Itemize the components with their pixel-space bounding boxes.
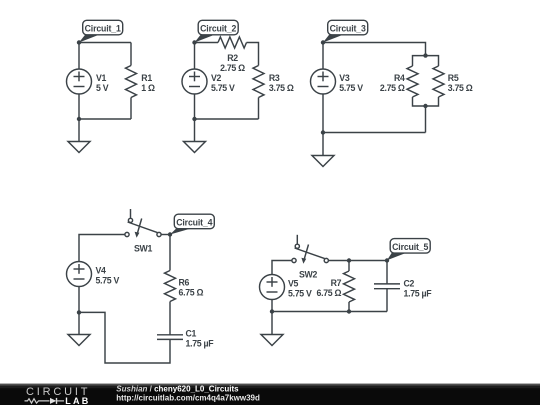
wire: R7 bottom lead bbox=[348, 302, 350, 312]
logo diode bbox=[50, 398, 64, 404]
wire: C2 top lead bbox=[386, 261, 388, 284]
svg-text:C1: C1 bbox=[186, 329, 197, 339]
svg-text:R1: R1 bbox=[141, 73, 152, 83]
footer bar bbox=[0, 384, 540, 405]
svg-text:V3: V3 bbox=[339, 73, 350, 83]
node: parallel bottom junction bbox=[423, 104, 427, 108]
wire: V3 bottom lead bbox=[322, 94, 324, 133]
svg-text:SW2: SW2 bbox=[299, 270, 317, 280]
wire: Circuit_1 ground stem bbox=[78, 119, 80, 142]
svg-text:5 V: 5 V bbox=[96, 83, 109, 93]
wire: Circuit_1 top rail bbox=[79, 42, 131, 44]
svg-text:1.75 µF: 1.75 µF bbox=[186, 339, 215, 349]
ground (Circuit_4) bbox=[68, 335, 90, 346]
wire: Circuit_1 bottom rail bbox=[79, 118, 131, 120]
ground (Circuit_2) bbox=[184, 142, 206, 153]
svg-text:1.75 µF: 1.75 µF bbox=[404, 288, 433, 298]
wire: Circuit_5 bottom rail bbox=[272, 311, 387, 313]
wire: SW2 to R7 node bbox=[329, 260, 388, 262]
wire: parallel top bar bbox=[413, 56, 439, 66]
label Circuit_4 bbox=[170, 214, 214, 234]
svg-text:Circuit_1: Circuit_1 bbox=[85, 24, 121, 34]
svg-text:R5: R5 bbox=[448, 73, 459, 83]
voltage source V4 bbox=[67, 262, 92, 287]
label Circuit_5 bbox=[387, 239, 430, 261]
svg-text:http://circuitlab.com/cm4q4a7k: http://circuitlab.com/cm4q4a7kww39d bbox=[116, 394, 260, 403]
ground (Circuit_5) bbox=[261, 335, 283, 346]
wire: Circuit_2 bottom rail bbox=[195, 118, 259, 120]
wire: Circuit_3 top rail bbox=[323, 43, 426, 56]
logo resistor squiggle bbox=[25, 399, 50, 403]
voltage source V1 bbox=[67, 69, 92, 94]
node: Circuit_1 bottom junction bbox=[77, 117, 81, 121]
voltage source V5 bbox=[260, 275, 285, 300]
wire: Circuit_2 top rail right bbox=[247, 43, 259, 66]
svg-text:6.75 Ω: 6.75 Ω bbox=[317, 288, 342, 298]
svg-text:2.75 Ω: 2.75 Ω bbox=[220, 63, 245, 73]
capacitor C2 bbox=[374, 284, 400, 289]
node: Circuit_1 top node bbox=[77, 40, 81, 44]
svg-text:V1: V1 bbox=[96, 73, 107, 83]
resistor R7 bbox=[344, 271, 355, 302]
resistor R4 bbox=[407, 66, 418, 97]
svg-text:3.75 Ω: 3.75 Ω bbox=[448, 83, 473, 93]
wire: V4 top lead bbox=[79, 235, 125, 262]
resistor R3 bbox=[253, 66, 264, 98]
svg-text:R6: R6 bbox=[179, 277, 190, 287]
wire: Circuit_3 bottom rail bbox=[323, 132, 426, 134]
wire: R6 top lead bbox=[169, 235, 171, 271]
wire: Circuit_5 ground stem bbox=[271, 312, 273, 335]
wire: V1 top lead bbox=[78, 43, 80, 70]
wire: V2 bottom lead bbox=[194, 94, 196, 119]
svg-text:2.75 Ω: 2.75 Ω bbox=[380, 83, 405, 93]
svg-text:SW1: SW1 bbox=[134, 244, 152, 254]
resistor R1 bbox=[126, 66, 137, 98]
svg-text:1 Ω: 1 Ω bbox=[141, 83, 155, 93]
svg-text:Circuit_5: Circuit_5 bbox=[392, 242, 428, 252]
wire: C1 bottom return bbox=[79, 312, 170, 363]
switch SW1 bbox=[125, 209, 161, 238]
svg-text:V4: V4 bbox=[96, 265, 107, 275]
label Circuit_2 bbox=[195, 20, 239, 42]
node: Circuit_3 bottom junction bbox=[321, 130, 325, 134]
svg-text:5.75 V: 5.75 V bbox=[339, 83, 363, 93]
node: R7 bottom junction bbox=[347, 309, 351, 313]
svg-text:V5: V5 bbox=[288, 278, 299, 288]
node: Circuit_3 top node bbox=[321, 40, 325, 44]
wire: R1 top lead bbox=[130, 43, 132, 66]
svg-text:Circuit_4: Circuit_4 bbox=[176, 218, 212, 228]
svg-text:5.75 V: 5.75 V bbox=[211, 83, 235, 93]
node: R7 top junction bbox=[347, 258, 351, 262]
svg-text:LAB: LAB bbox=[65, 396, 89, 405]
svg-text:C2: C2 bbox=[404, 278, 415, 288]
svg-text:3.75 Ω: 3.75 Ω bbox=[269, 83, 294, 93]
wire: parallel bottom bar bbox=[413, 97, 439, 106]
wire: C2 bottom lead bbox=[386, 289, 388, 312]
wire: V3 top lead bbox=[322, 43, 324, 70]
wire: SW1 to node bbox=[161, 234, 170, 236]
switch SW2 bbox=[292, 235, 329, 264]
node: V5 bottom junction bbox=[270, 309, 274, 313]
wire: R1 bottom lead bbox=[130, 98, 132, 120]
svg-text:V2: V2 bbox=[211, 73, 222, 83]
capacitor C1 bbox=[157, 335, 183, 340]
svg-text:6.75 Ω: 6.75 Ω bbox=[179, 287, 204, 297]
wire: R6 to C1 bbox=[169, 302, 171, 335]
wire: Circuit_4 ground stem bbox=[78, 312, 80, 334]
voltage source V3 bbox=[311, 69, 336, 94]
resistor R2 bbox=[218, 37, 247, 48]
wire: Circuit_3 ground stem bbox=[322, 133, 324, 156]
node: Circuit_4 bottom junction bbox=[77, 310, 81, 314]
wire: R3 bottom lead bbox=[258, 98, 260, 120]
voltage source V2 bbox=[182, 69, 207, 94]
node: parallel top junction bbox=[423, 53, 427, 57]
wire: V5 top lead bbox=[272, 261, 292, 275]
node: Circuit_2 bottom junction bbox=[192, 117, 196, 121]
svg-text:Circuit_2: Circuit_2 bbox=[200, 24, 236, 34]
svg-text:5.75 V: 5.75 V bbox=[96, 275, 120, 285]
resistor R5 bbox=[433, 66, 444, 97]
node: Circuit_4 node bbox=[168, 232, 172, 236]
svg-text:R3: R3 bbox=[269, 73, 280, 83]
svg-text:Circuit_3: Circuit_3 bbox=[330, 24, 366, 34]
node: Circuit_5 node bbox=[385, 258, 389, 262]
svg-text:R4: R4 bbox=[394, 73, 405, 83]
wire: Circuit_2 ground stem bbox=[194, 119, 196, 142]
wire: V5 bottom lead bbox=[271, 300, 273, 312]
node: Circuit_2 top node bbox=[192, 40, 196, 44]
svg-text:5.75 V: 5.75 V bbox=[288, 288, 312, 298]
svg-text:R7: R7 bbox=[331, 278, 342, 288]
wire: V4 bottom lead bbox=[78, 287, 80, 313]
label Circuit_1 bbox=[79, 20, 123, 42]
wire: R7 top lead bbox=[348, 261, 350, 272]
wire: Circuit_2 top rail left bbox=[195, 42, 219, 44]
resistor R6 bbox=[165, 271, 176, 302]
ground (Circuit_3) bbox=[312, 156, 334, 167]
label Circuit_3 bbox=[323, 20, 368, 42]
svg-text:Sushian / cheny620_L0_Circuits: Sushian / cheny620_L0_Circuits bbox=[116, 385, 239, 394]
ground (Circuit_1) bbox=[68, 142, 90, 153]
wire: V2 top lead bbox=[194, 43, 196, 70]
wire: V1 bottom lead bbox=[78, 94, 80, 119]
wire: parallel to bottom rail bbox=[425, 106, 427, 133]
svg-text:R2: R2 bbox=[227, 53, 238, 63]
